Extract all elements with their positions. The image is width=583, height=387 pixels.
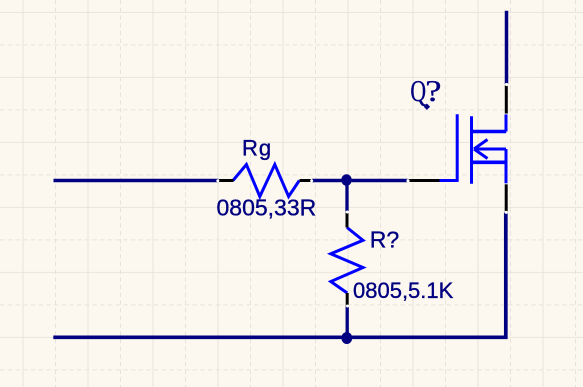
pin end marker drain	[505, 83, 508, 86]
svg-text:Rg: Rg	[242, 136, 272, 161]
resistor R? pin 1	[346, 212, 349, 228]
wire: top right vertical net down to drain pin	[505, 11, 509, 84]
transistor Q1 gate bar	[456, 114, 459, 182]
transistor Q1 source stub	[472, 161, 507, 165]
resistor Rg body (zigzag)	[233, 165, 299, 197]
pin end marker source	[505, 211, 508, 214]
node A junction dot	[341, 174, 351, 186]
pin end marker Rg pin 1	[216, 179, 219, 182]
resistor R? body (zigzag)	[331, 228, 363, 294]
svg-text:R?: R?	[370, 227, 399, 253]
transistor Q1 channel bar	[470, 116, 473, 184]
resistor Rg pin 2	[300, 179, 312, 182]
resistor Rg pin 1	[219, 179, 234, 182]
transistor Q1 drain stub	[472, 130, 507, 134]
wire: vertical stub from R? bottom pin down to node B	[346, 307, 349, 338]
svg-text:Q: Q	[410, 73, 426, 108]
designator label Q?	[410, 73, 441, 108]
transistor Q1 body stub with arrow	[474, 140, 506, 159]
transistor Q1 drain riser	[505, 114, 508, 131]
wire: vertical stub from node A down to R? top pin	[345, 181, 348, 212]
svg-text:?: ?	[425, 74, 441, 108]
transistor Q1 drain pin	[505, 85, 508, 114]
pin end marker gate	[406, 179, 409, 182]
transistor Q1 source pin	[505, 184, 508, 212]
pin end marker R? pin 1	[346, 211, 349, 214]
wire: top horizontal net from left edge to gate pin	[54, 179, 408, 183]
transistor Q1 gate lead	[440, 179, 458, 182]
wire: bottom horizontal net and right vertical riser to source pin	[53, 213, 506, 338]
pin end marker Rg pin 2	[310, 179, 313, 182]
transistor Q1 gate pin	[408, 179, 439, 182]
node B junction dot	[341, 332, 352, 344]
pin end marker R? pin 2	[346, 305, 349, 308]
resistor R? pin 2	[346, 293, 349, 306]
transistor Q1 source riser	[505, 149, 508, 183]
parameter anchor diamond of Q?	[424, 104, 430, 110]
svg-text:0805,5.1K: 0805,5.1K	[353, 278, 454, 303]
svg-text:0805,33R: 0805,33R	[217, 195, 317, 221]
